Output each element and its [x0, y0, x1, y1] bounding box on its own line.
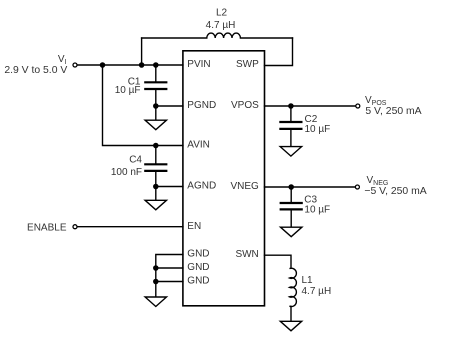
wire left rail to AVIN: [103, 65, 183, 146]
value L2 4.7 uH: [206, 20, 236, 31]
inductor L2: [142, 33, 293, 38]
svg-text:PVIN: PVIN: [187, 59, 210, 70]
pin label VNEG: [230, 181, 259, 192]
label C4: [129, 154, 142, 165]
svg-text:−5 V, 250 mA: −5 V, 250 mA: [364, 186, 426, 197]
svg-text:GND: GND: [187, 249, 209, 260]
junction dot PVIN/L2: [139, 62, 145, 68]
wire SWN: [265, 255, 292, 268]
junction dot AVIN/C4: [153, 143, 159, 149]
wire AGND: [156, 186, 183, 188]
wire VPOS output: [265, 105, 356, 107]
svg-text:C3: C3: [304, 194, 317, 205]
label L2: [216, 8, 228, 19]
svg-text:AVIN: AVIN: [187, 140, 210, 151]
svg-text:AGND: AGND: [187, 181, 216, 192]
ground (GND bus): [145, 297, 166, 307]
node ENABLE label: [27, 223, 67, 234]
svg-text:EN: EN: [187, 221, 201, 232]
junction dot GND2: [153, 265, 159, 271]
pin label EN: [187, 221, 201, 232]
wire L2 left leg: [141, 38, 143, 65]
label C1: [128, 77, 141, 88]
pin label VPOS: [231, 100, 259, 111]
ground (C3): [281, 227, 302, 237]
terminal VNEG: [355, 185, 359, 189]
value C4 100 nF: [111, 167, 142, 178]
svg-text:ENABLE: ENABLE: [27, 223, 67, 234]
pin label AVIN: [187, 140, 210, 151]
inductor L1: [290, 268, 297, 321]
svg-text:2.9 V to 5.0 V: 2.9 V to 5.0 V: [4, 65, 67, 76]
junction dot PGND/C1: [153, 103, 159, 109]
svg-text:VPOS: VPOS: [231, 100, 259, 111]
value C1 10 uF: [115, 85, 141, 96]
junction dot VNEG/C3: [288, 184, 294, 190]
svg-text:SWP: SWP: [236, 59, 259, 70]
wire VNEG output: [265, 186, 355, 188]
svg-text:100 nF: 100 nF: [111, 167, 142, 178]
node VNEG label: [367, 175, 389, 187]
svg-text:SWN: SWN: [235, 249, 258, 260]
pin label GND 1: [187, 249, 209, 260]
terminal VPOS: [356, 104, 360, 108]
ground (C2): [280, 147, 301, 157]
value L1 4.7 uH: [302, 286, 332, 297]
svg-text:10 µF: 10 µF: [115, 85, 141, 96]
svg-text:VNEG: VNEG: [230, 181, 259, 192]
junction dot VPOS/C2: [288, 103, 294, 109]
svg-text:4.7 µH: 4.7 µH: [206, 20, 236, 31]
junction dot GND3: [153, 279, 159, 285]
wire PGND: [156, 105, 183, 107]
junction dot PVIN/C1: [153, 62, 159, 68]
terminal VI: [73, 63, 77, 67]
value C3 10 uF: [304, 205, 330, 216]
junction dot PVIN/rail: [100, 62, 106, 68]
svg-text:C4: C4: [129, 154, 142, 165]
svg-text:GND: GND: [187, 276, 209, 287]
ground (PGND): [145, 106, 166, 130]
value VPOS 5V 250mA: [365, 106, 421, 117]
svg-text:10 µF: 10 µF: [304, 205, 330, 216]
label C3: [304, 194, 317, 205]
node VPOS label: [365, 95, 387, 107]
pin label AGND: [187, 181, 216, 192]
value VNEG -5V 250mA: [364, 186, 426, 197]
svg-text:PGND: PGND: [187, 100, 216, 111]
op-amp U1 IC body: [183, 51, 265, 306]
pin label GND 3: [187, 276, 209, 287]
capacitor C3: [281, 187, 302, 227]
svg-text:10 µF: 10 µF: [305, 124, 331, 135]
svg-text:L1: L1: [302, 275, 314, 286]
pin label SWN: [235, 249, 258, 260]
wire GND bus: [156, 255, 183, 298]
label C2: [305, 114, 318, 125]
svg-text:GND: GND: [187, 262, 209, 273]
node VI label: [58, 54, 67, 66]
svg-text:4.7 µH: 4.7 µH: [302, 286, 332, 297]
wire VI input to PVIN: [78, 64, 183, 66]
terminal ENABLE: [73, 225, 77, 229]
pin label PGND: [187, 100, 216, 111]
label L1: [302, 275, 314, 286]
capacitor C1: [145, 65, 166, 106]
pin label SWP: [236, 59, 259, 70]
pin label GND 2: [187, 262, 209, 273]
value VI range: [4, 65, 67, 76]
capacitor C4: [145, 146, 166, 187]
capacitor C2: [280, 106, 301, 147]
wire ENABLE to EN: [78, 226, 183, 228]
svg-text:L2: L2: [216, 8, 228, 19]
ground (AGND): [145, 187, 166, 210]
svg-text:5 V, 250 mA: 5 V, 250 mA: [365, 106, 421, 117]
junction dot AGND/C4: [153, 184, 159, 190]
pin label PVIN: [187, 59, 210, 70]
value C2 10 uF: [305, 124, 331, 135]
ground (L1): [280, 321, 301, 331]
wire L2 right leg to SWP: [265, 38, 293, 66]
